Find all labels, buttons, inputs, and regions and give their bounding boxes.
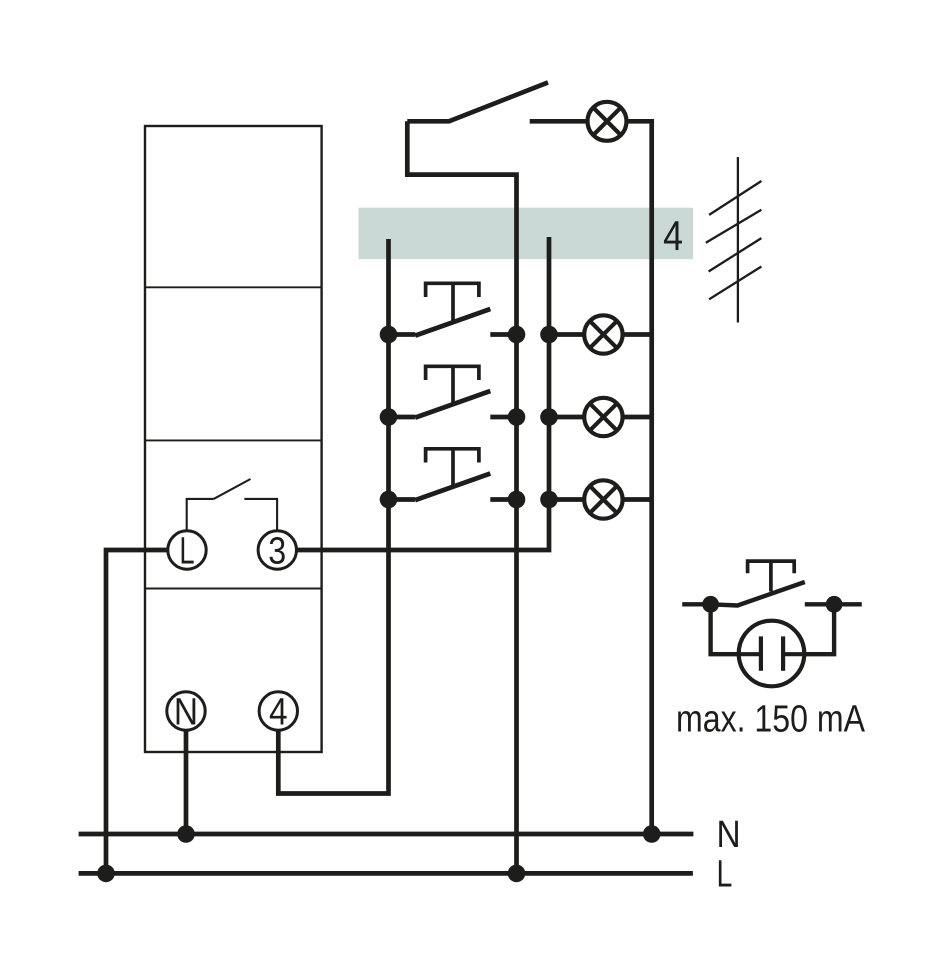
svg-text:L: L [179, 530, 194, 572]
svg-text:N: N [174, 691, 198, 733]
svg-text:L: L [717, 853, 733, 895]
svg-text:4: 4 [269, 691, 288, 733]
svg-text:max. 150 mA: max. 150 mA [676, 699, 866, 741]
svg-text:3: 3 [268, 530, 286, 572]
svg-text:N: N [717, 813, 741, 855]
svg-text:4: 4 [663, 213, 683, 259]
